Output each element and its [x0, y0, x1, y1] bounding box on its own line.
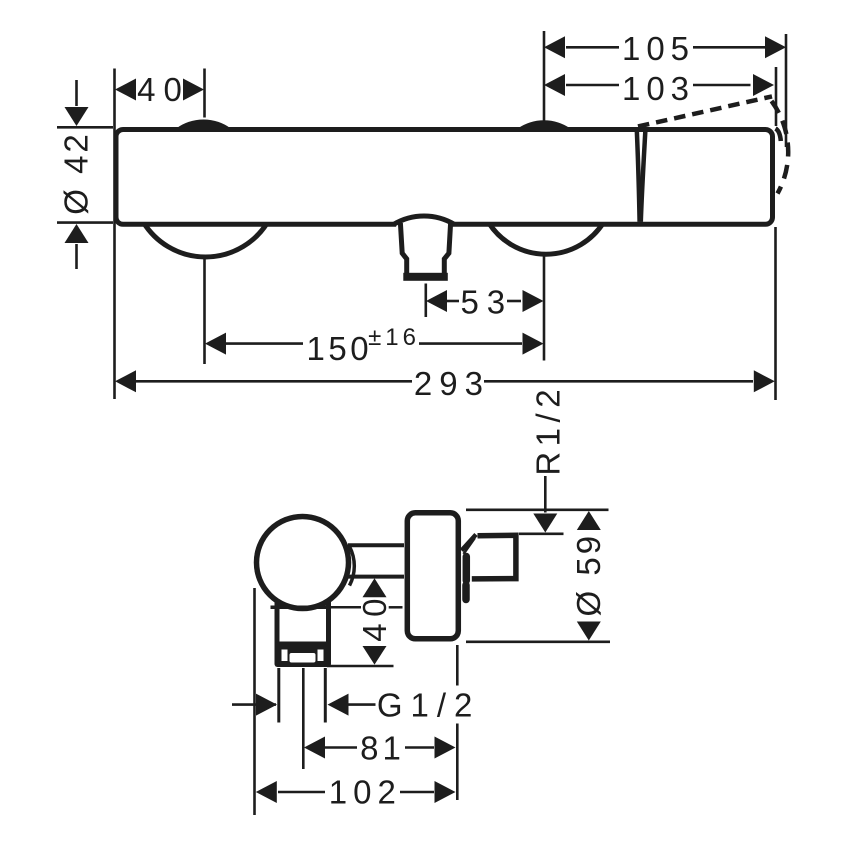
svg-text:150: 150	[307, 330, 373, 367]
svg-text:40: 40	[137, 71, 190, 108]
svg-text:R1/2: R1/2	[530, 384, 567, 476]
svg-text:102: 102	[329, 774, 402, 811]
svg-text:53: 53	[460, 283, 513, 320]
svg-text:103: 103	[622, 70, 695, 107]
svg-text:105: 105	[622, 30, 695, 67]
svg-text:G1/2: G1/2	[377, 686, 481, 723]
svg-text:Ø 42: Ø 42	[57, 131, 94, 215]
svg-text:81: 81	[360, 729, 405, 766]
svg-text:293: 293	[414, 365, 490, 402]
svg-text:Ø 59: Ø 59	[570, 533, 607, 617]
svg-text:±16: ±16	[368, 324, 420, 351]
svg-text:40: 40	[356, 592, 393, 642]
